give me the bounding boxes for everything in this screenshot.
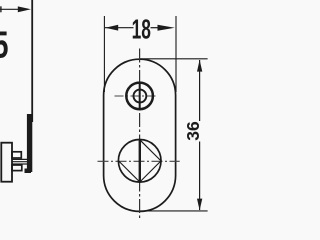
dim 36: down arrowhead (197, 199, 202, 211)
dim 18: right tail (151, 27, 160, 29)
side view: dimension tick at image edge (0, 6, 1, 12)
front view: stadium outline (104, 59, 176, 211)
dim 18: right arrowhead (158, 25, 175, 31)
side view: body foot (25, 169, 32, 174)
big hole: vertical diameter bar (139, 140, 141, 182)
big circle: horizontal centerline (98, 160, 180, 162)
side view: dimension arrowhead pointing right (18, 6, 31, 12)
side view: switch body dark band (27, 114, 32, 172)
small hole: inner ring (134, 90, 147, 103)
side view: panel vertical line (31, 0, 33, 122)
side view: spade terminal line 1 (12, 158, 29, 160)
front view: vertical centerline (139, 49, 141, 219)
side view: dimension line (top-left, cut off) (0, 8, 19, 10)
dim 36: bottom tangent extension line (140, 210, 208, 212)
front view: right extension line of dim 18 (175, 16, 177, 92)
dim 18: left tail (105, 27, 134, 29)
svg-text:18: 18 (132, 13, 151, 44)
svg-text:5: 5 (0, 24, 9, 66)
dim 36: dimension line upper segment (199, 60, 201, 121)
small circle: horizontal centerline (115, 95, 159, 97)
dim 18: left arrowhead (105, 25, 118, 31)
side view: upper terminal lug (12, 152, 21, 158)
side view: spade terminal line 2 (12, 161, 29, 163)
big hole: chord 3h to 6h (140, 161, 161, 182)
side view: connector box (1, 143, 12, 182)
front view: left extension line of dim 18 (103, 16, 105, 92)
svg-text:36: 36 (183, 121, 203, 141)
small hole: outer ring (126, 83, 153, 110)
side view: lower terminal lug (12, 165, 22, 171)
side view: spade terminal line 3 (12, 163, 29, 165)
big hole: chord 9h to 6h (119, 161, 140, 182)
big hole: chord 12h to 3h (140, 140, 161, 161)
dim 36: up arrowhead (197, 60, 202, 72)
dim 36: top tangent extension line (140, 58, 208, 60)
dim 36: dimension line lower segment (199, 142, 201, 211)
small hole: vertical diameter bar (139, 83, 141, 109)
big hole: circle (118, 140, 161, 183)
